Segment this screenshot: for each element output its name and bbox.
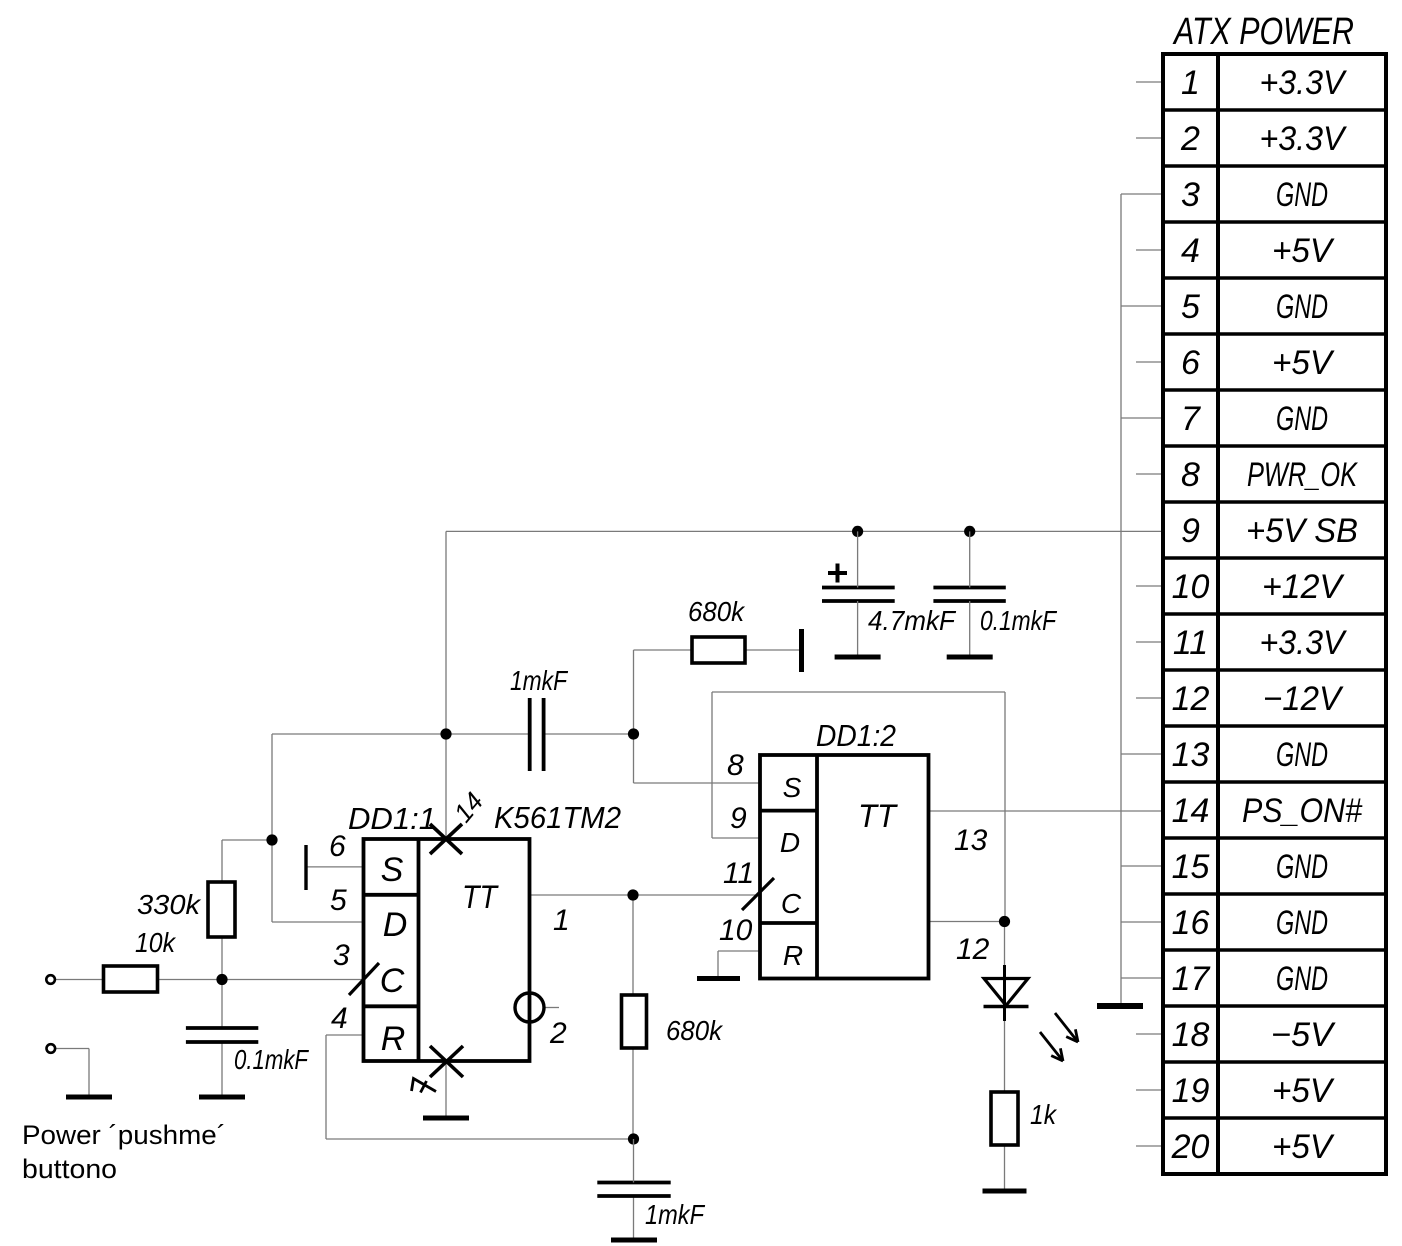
svg-text:GND: GND (1276, 960, 1328, 998)
svg-text:4.7mkF: 4.7mkF (868, 605, 957, 636)
DD1:2 clock slash pin 11 (742, 878, 774, 910)
terminal X1 push button contact (46, 975, 55, 984)
wire node D to C5 (633, 1139, 635, 1183)
svg-text:D: D (780, 827, 800, 858)
wire C1 0.1mkF bottom to ground (221, 1042, 223, 1097)
svg-text:680k: 680k (666, 1015, 724, 1046)
svg-text:12: 12 (956, 933, 990, 966)
DD1:1 pin 2 inversion circle (515, 993, 544, 1022)
svg-text:13: 13 (954, 824, 988, 857)
resistor R2 330k (208, 882, 235, 937)
wire GND stub ATX pin 13 (1121, 753, 1163, 755)
wire +5VSB rail to ATX pin 9 (446, 530, 1163, 532)
resistor R5 1k (991, 1092, 1018, 1145)
ground below DD1:1 pin 7 (423, 1116, 469, 1121)
wire GND stub ATX pin 15 (1121, 865, 1163, 867)
wire vertical +5VSB to DD1:1 pin 14 (445, 531, 447, 839)
wire R4 680k bottom to node D (632, 1048, 634, 1139)
wire node C down to R4 680k (632, 895, 634, 995)
svg-text:GND: GND (1276, 288, 1328, 326)
wire DD1:1 pin 6 S input (306, 866, 364, 868)
capacitor C1 0.1mkF plates (186, 1028, 258, 1042)
svg-text:2: 2 (1180, 120, 1200, 158)
capacitor C3 4.7mkF plates (822, 588, 895, 602)
svg-text:GND: GND (1276, 904, 1328, 942)
junction node E at pin 12 / LED (999, 916, 1010, 927)
wire stub ATX pin 6 (1136, 361, 1163, 363)
svg-text:+5V: +5V (1272, 1072, 1335, 1110)
svg-text:9: 9 (1181, 512, 1200, 550)
wire DD1:1 pin 2 stub (543, 1007, 559, 1009)
svg-text:11: 11 (1173, 624, 1208, 662)
svg-text:R: R (381, 1020, 406, 1058)
wire DD1:2 D loop left vertical (711, 692, 713, 838)
IC DD1:1 K561TM2 flip-flop body (364, 839, 530, 1061)
ground at terminal X2 (66, 1095, 112, 1100)
svg-text:+3.3V: +3.3V (1260, 120, 1348, 158)
DD1:1 clock slash pin 3 (349, 963, 379, 995)
svg-text:GND: GND (1276, 400, 1328, 438)
svg-text:10k: 10k (135, 927, 177, 958)
junction node B at C2 right (628, 728, 639, 739)
C3 polarity plus sign (828, 564, 847, 583)
svg-text:Power ´pushme´: Power ´pushme´ (22, 1120, 226, 1150)
wire stub ATX pin 19 (1136, 1089, 1163, 1091)
wire R2 330k bottom to input line (221, 937, 223, 980)
wire stub ATX pin 4 (1136, 249, 1163, 251)
svg-text:+12V: +12V (1262, 568, 1345, 606)
plate bar at DD1:1 pin 6 S input (304, 845, 307, 890)
svg-text:C: C (781, 888, 802, 919)
svg-text:4: 4 (331, 1002, 348, 1035)
wire DD1:2 pin 9 D input (712, 837, 760, 839)
wire C5 1mkF bottom to ground (633, 1196, 635, 1240)
wire stub ATX pin 12 (1136, 697, 1163, 699)
wire stub ATX pin 1 (1136, 81, 1163, 83)
svg-text:12: 12 (1172, 680, 1210, 718)
wire branch to R2 330k top (222, 839, 272, 841)
wire GND stub ATX pin 17 (1121, 977, 1163, 979)
svg-text:10: 10 (1172, 568, 1210, 606)
wire DD1:2 D loop top (712, 691, 1005, 693)
wire terminal X2 to ground (88, 1049, 90, 1098)
svg-text:17: 17 (1172, 960, 1211, 998)
DD1:1 pin 14 power cross (430, 824, 462, 854)
svg-text:S: S (783, 772, 802, 803)
svg-text:18: 18 (1172, 1016, 1210, 1054)
wire stub ATX pin 10 (1136, 585, 1163, 587)
svg-text:S: S (381, 851, 404, 889)
ground below C4 0.1mkF (947, 655, 993, 660)
wire node E down to LED VD1 (1004, 922, 1006, 967)
junction node D at C5 1mkF (628, 1133, 639, 1144)
ground below C5 1mkF (611, 1238, 657, 1243)
resistor R4 680k (622, 995, 647, 1048)
svg-text:2: 2 (549, 1017, 567, 1050)
svg-text:19: 19 (1172, 1072, 1210, 1110)
svg-text:DD1:2: DD1:2 (816, 718, 896, 753)
wire DD1:2 pin 10 R input (718, 950, 760, 952)
svg-text:TT: TT (858, 798, 898, 834)
wire DD1:1 pin 5 D input (272, 921, 364, 923)
svg-text:1: 1 (553, 904, 570, 937)
capacitor C2 1mkF plates (530, 698, 544, 771)
wire C4 to ground (969, 601, 971, 657)
wire LED VD1 cathode to R5 1k (1004, 1021, 1006, 1094)
svg-text:5: 5 (1181, 288, 1200, 326)
svg-text:4: 4 (1181, 232, 1200, 270)
ground below R5 1k (983, 1189, 1027, 1194)
wire to C1 0.1mkF top (221, 980, 223, 1029)
svg-text:16: 16 (1172, 904, 1210, 942)
terminal X2 push button contact (47, 1044, 56, 1053)
wire GND stub ATX pin 5 (1121, 305, 1163, 307)
capacitor C4 0.1mkF plates (933, 588, 1005, 602)
svg-text:+3.3V: +3.3V (1260, 624, 1348, 662)
svg-text:R: R (783, 940, 803, 971)
svg-text:+5V: +5V (1272, 1128, 1335, 1166)
IC DD1:2 K561TM2 flip-flop body (760, 755, 929, 979)
capacitor C5 1mkF plates (597, 1183, 670, 1197)
wire DD1:2 pin 13 output to ATX pin 14 PS_ON# (929, 810, 1164, 812)
wire DD1:1 pin 4 R input (326, 1034, 364, 1036)
svg-text:+5V: +5V (1272, 232, 1335, 270)
svg-text:C: C (380, 962, 405, 1000)
svg-text:DD1:1: DD1:1 (348, 801, 436, 836)
svg-text:8: 8 (1181, 456, 1200, 494)
svg-text:3: 3 (333, 939, 350, 972)
wire GND bus along ATX connector (1120, 194, 1122, 1004)
wire C3 to ground (857, 601, 859, 657)
wire terminal X1 to R1 10k (55, 979, 104, 981)
wire DD1:1 pin 1 Q output to DD1:2 pin 11 C input (530, 894, 761, 896)
svg-text:20: 20 (1171, 1128, 1210, 1166)
svg-text:GND: GND (1276, 736, 1328, 774)
svg-text:9: 9 (730, 802, 747, 835)
plate bar at R3 680k right (799, 629, 804, 672)
svg-text:1k: 1k (1030, 1099, 1058, 1130)
junction +5VSB at C4 0.1mkF (964, 526, 975, 537)
svg-text:1mkF: 1mkF (645, 1199, 706, 1230)
svg-text:0.1mkF: 0.1mkF (980, 605, 1058, 636)
wire +5VSB to C4 (969, 531, 971, 587)
junction +5VSB at C3 4.7mkF (852, 526, 863, 537)
LED light arrows (1055, 1013, 1078, 1042)
wire GND stub ATX pin 3 (1121, 193, 1163, 195)
wire R input over to node D (326, 1138, 634, 1140)
wire node A horizontal to C2 left plate (272, 733, 530, 735)
ATX POWER connector table (1163, 54, 1386, 1174)
ground at DD1:2 pin 10 R (697, 976, 740, 981)
svg-text:ATX POWER: ATX POWER (1172, 11, 1354, 53)
ground below C1 0.1mkF (199, 1095, 245, 1100)
wire R3 680k right to plate bar (745, 649, 799, 651)
resistor R3 680k (692, 637, 745, 663)
wire GND stub ATX pin 16 (1121, 921, 1163, 923)
wire GND stub ATX pin 7 (1121, 417, 1163, 419)
svg-text:buttono: buttono (22, 1154, 117, 1184)
svg-text:1: 1 (1181, 64, 1200, 102)
svg-text:+5V: +5V (1272, 344, 1335, 382)
svg-text:10: 10 (719, 914, 753, 947)
svg-text:GND: GND (1276, 848, 1328, 886)
svg-text:6: 6 (1181, 344, 1200, 382)
junction node C on Q1 output (627, 889, 638, 900)
svg-text:5: 5 (330, 884, 347, 917)
svg-text:−12V: −12V (1263, 680, 1344, 718)
ground ATX GND bus (1097, 1003, 1143, 1009)
wire C2 right plate to node B (544, 733, 634, 735)
svg-text:−5V: −5V (1271, 1016, 1336, 1054)
svg-text:+5V SB: +5V SB (1246, 512, 1358, 550)
svg-text:330k: 330k (137, 889, 202, 920)
wire R1 10k to DD1:1 pin 3 C input (158, 979, 364, 981)
DD1:1 pin 7 power cross (430, 1046, 463, 1077)
wire stub ATX pin 11 (1136, 641, 1163, 643)
svg-text:680k: 680k (688, 596, 746, 627)
junction node at R2 330k branch (266, 834, 277, 845)
wire DD1:2 pin 12 output (929, 921, 1005, 923)
wire stub ATX pin 18 (1136, 1033, 1163, 1035)
junction node at R1/R2/C1 (216, 974, 227, 985)
wire DD1:2 pin 8 S input (634, 782, 761, 784)
wire R input down (325, 1035, 327, 1139)
wire terminal X2 lead (55, 1048, 89, 1050)
svg-text:6: 6 (329, 830, 346, 863)
wire vertical node A down to DD1:1 D input (271, 734, 273, 922)
svg-text:PS_ON#: PS_ON# (1242, 792, 1363, 830)
wire R5 1k to ground (1004, 1145, 1006, 1191)
svg-text:11: 11 (723, 857, 754, 890)
svg-text:+3.3V: +3.3V (1260, 64, 1348, 102)
svg-text:7: 7 (1181, 400, 1201, 438)
svg-text:K561TM2: K561TM2 (494, 800, 621, 835)
junction node A at C2 line (440, 728, 451, 739)
svg-text:D: D (383, 906, 408, 944)
wire R input to ground (717, 951, 719, 979)
svg-text:PWR_OK: PWR_OK (1247, 456, 1358, 494)
svg-text:13: 13 (1172, 736, 1210, 774)
wire stub ATX pin 20 (1136, 1145, 1163, 1147)
svg-text:1mkF: 1mkF (510, 665, 569, 696)
svg-text:15: 15 (1172, 848, 1210, 886)
wire DD1:1 pin 7 to ground (445, 1061, 447, 1117)
wire stub ATX pin 2 (1136, 137, 1163, 139)
DD1:1 pin 7 rotated (412, 1079, 437, 1093)
svg-text:8: 8 (727, 749, 744, 782)
resistor R1 10k (104, 966, 158, 992)
ground below C3 4.7mkF (835, 655, 881, 660)
wire vertical node B (633, 650, 635, 783)
svg-text:14: 14 (1172, 792, 1210, 830)
wire stub ATX pin 8 (1136, 473, 1163, 475)
wire node B up to R3 680k left (634, 649, 693, 651)
svg-text:3: 3 (1181, 176, 1200, 214)
wire down to R2 330k (221, 840, 223, 882)
svg-text:GND: GND (1276, 176, 1328, 214)
svg-text:TT: TT (462, 879, 499, 915)
LED VD1 (1003, 965, 1006, 1021)
wire DD1:2 D loop right vertical (1004, 692, 1006, 922)
svg-text:0.1mkF: 0.1mkF (234, 1044, 309, 1075)
wire +5VSB to C3 (857, 531, 859, 587)
